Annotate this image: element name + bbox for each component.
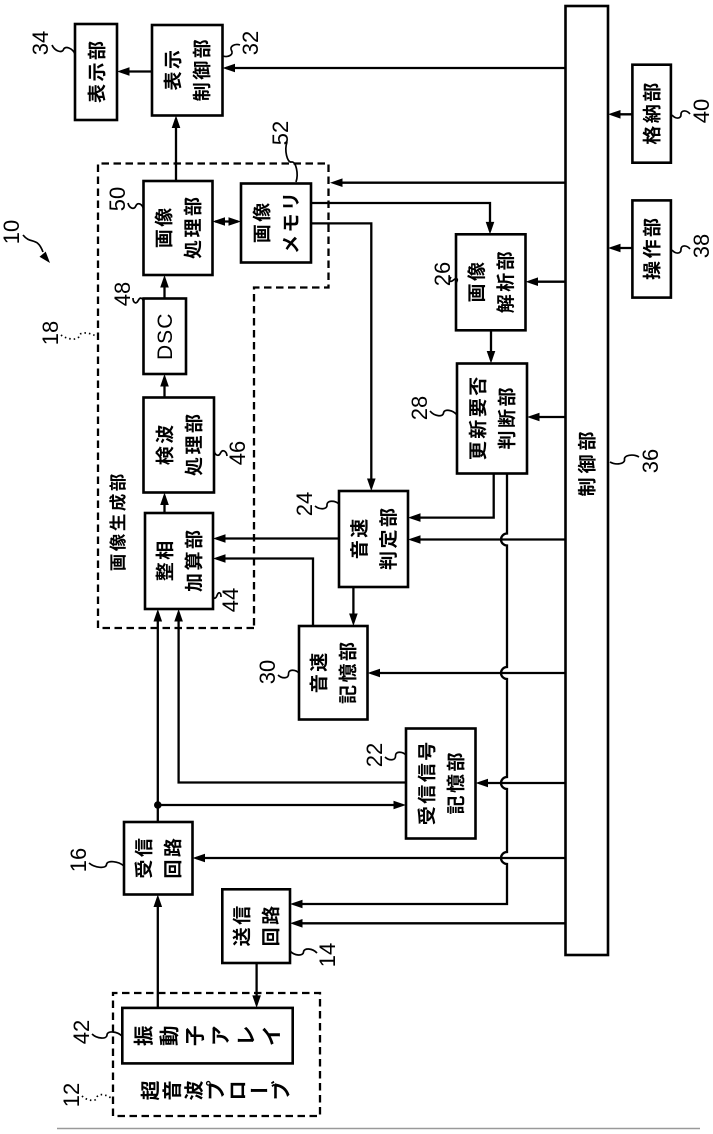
- wire 画像処理部 to/from 画像メモリ (double arrow): [213, 217, 242, 226]
- label 52: [268, 121, 297, 182]
- label 34: [28, 31, 75, 55]
- box 48 DSC: [144, 299, 187, 375]
- wire 受信回路 to 整相加算部: [154, 609, 163, 822]
- wire 更新要否判断部 to 送信回路 (long, hops over 4 lines): [290, 474, 507, 909]
- label 画像生成部 (image generating unit): [109, 474, 126, 570]
- scan artifact: faint page edge line: [57, 1128, 700, 1130]
- box 28 更新要否判断部 update necessity decision: [457, 364, 527, 474]
- label 48: [110, 282, 144, 306]
- box 40 格納部 storage: [632, 65, 671, 163]
- svg-text:14: 14: [315, 943, 340, 967]
- junction dot: [154, 801, 162, 809]
- label 36: [610, 449, 663, 473]
- svg-text:30: 30: [255, 660, 280, 684]
- svg-text:52: 52: [268, 121, 293, 145]
- box 52 画像メモリ image memory: [241, 184, 311, 263]
- svg-text:34: 34: [28, 31, 53, 55]
- svg-text:12: 12: [59, 1083, 84, 1107]
- svg-text:16: 16: [66, 848, 91, 872]
- label 32: [223, 31, 263, 57]
- wire 画像解析部 to 更新要否判断部: [487, 330, 496, 363]
- wire 制御部 to 送信回路: [290, 919, 566, 928]
- svg-text:10: 10: [0, 220, 24, 244]
- label 22: [362, 743, 406, 767]
- wire 音速判定部 to 整相加算部: [213, 534, 339, 543]
- label 超音波プローブ (ultrasonic probe) vertical: [141, 1081, 290, 1100]
- wire branch 受信回路 to 受信信号記憶部: [158, 801, 406, 810]
- label 18 dotted leader: [38, 321, 97, 345]
- wire 制御部 to 音速記憶部: [368, 669, 566, 678]
- box 46 検波処理部 detection processing: [144, 398, 215, 493]
- wire 制御部 to 受信回路: [193, 854, 566, 863]
- svg-text:46: 46: [225, 441, 250, 465]
- label 42: [69, 1020, 122, 1044]
- wire 制御部 to 音速判定部: [408, 535, 566, 544]
- wire 格納部 to 制御部: [608, 110, 632, 119]
- label 14: [290, 943, 340, 967]
- label 24: [292, 492, 339, 516]
- label 46: [214, 441, 250, 465]
- svg-text:28: 28: [407, 396, 432, 420]
- wire 制御部 to 画像メモリ/dashed box 52: [330, 178, 566, 187]
- svg-text:38: 38: [689, 234, 713, 258]
- svg-text:50: 50: [105, 187, 130, 211]
- wire 画像メモリ to 画像解析部: [311, 203, 494, 234]
- svg-text:26: 26: [430, 262, 455, 286]
- svg-text:18: 18: [38, 321, 63, 345]
- box 38 操作部 operating: [632, 200, 671, 297]
- svg-text:32: 32: [238, 31, 263, 55]
- label 12 dotted leader: [59, 1083, 112, 1107]
- box 22 受信信号記憶部 received signal memory: [406, 729, 476, 839]
- box 14 送信回路 transmitting circuit: [222, 889, 290, 963]
- label 40: [672, 99, 713, 123]
- label 16: [66, 848, 124, 872]
- svg-text:40: 40: [689, 99, 713, 123]
- svg-text:36: 36: [638, 449, 663, 473]
- wire 更新要否判断部 to 音速判定部: [408, 474, 494, 522]
- box 36 制御部 control (long bar): [566, 6, 609, 955]
- svg-text:22: 22: [362, 743, 387, 767]
- wire 振動子アレイ to 受信回路: [154, 895, 163, 1008]
- wire DSC to 画像処理部: [160, 275, 169, 299]
- box 34 表示部 display: [75, 24, 117, 120]
- box 32 表示制御部 display control: [152, 25, 223, 116]
- svg-text:24: 24: [292, 492, 317, 516]
- dashed box 12 ultrasound probe outline: [113, 993, 320, 1116]
- wire 表示制御部 to 表示部: [117, 67, 152, 76]
- label 26: [430, 262, 457, 286]
- wire 音速判定部 to 音速記憶部: [349, 587, 358, 626]
- box 24 音速判定部 sound speed determination: [339, 491, 408, 587]
- label 38: [672, 234, 713, 258]
- svg-text:48: 48: [110, 282, 135, 306]
- svg-text:DSC: DSC: [154, 313, 177, 360]
- svg-text:42: 42: [69, 1020, 94, 1044]
- dashed box 18 image generation section outline: [98, 164, 329, 629]
- label 10 system numeral with arrow: [0, 220, 50, 263]
- wire 画像処理部 to 表示制御部: [172, 116, 181, 182]
- svg-text:44: 44: [218, 588, 243, 612]
- label 44: [213, 588, 243, 612]
- wire 音速記憶部 to 整相加算部: [213, 554, 313, 626]
- box 26 画像解析部 image analysis: [456, 234, 526, 330]
- wire 送信回路 to 振動子アレイ: [252, 963, 261, 1008]
- wire 画像メモリ to 音速判定部: [311, 223, 376, 491]
- box 50 画像処理部 image processing: [144, 181, 213, 275]
- box 16 受信回路 receiving circuit: [124, 822, 193, 895]
- box 30 音速記憶部 sound speed memory: [299, 626, 368, 720]
- wire 制御部 to 画像解析部: [526, 277, 566, 286]
- wire 整相加算部 to 検波処理部: [160, 493, 169, 514]
- label 30: [255, 660, 299, 684]
- wire 制御部 to 受信信号記憶部: [476, 779, 566, 788]
- wire 制御部 to 更新要否判断部: [527, 413, 566, 422]
- label 50: [105, 187, 144, 211]
- label 28: [407, 396, 457, 420]
- box 42 振動子アレイ transducer array (vertical): [122, 1008, 292, 1064]
- wire 検波処理部 to DSC: [160, 374, 169, 398]
- box 44 整相加算部 phasing adder: [145, 513, 213, 609]
- wire 操作部 to 制御部: [608, 244, 632, 253]
- wire 制御部 to 表示制御部: [223, 64, 566, 73]
- wire 受信信号記憶部 to 整相加算部: [174, 609, 406, 783]
